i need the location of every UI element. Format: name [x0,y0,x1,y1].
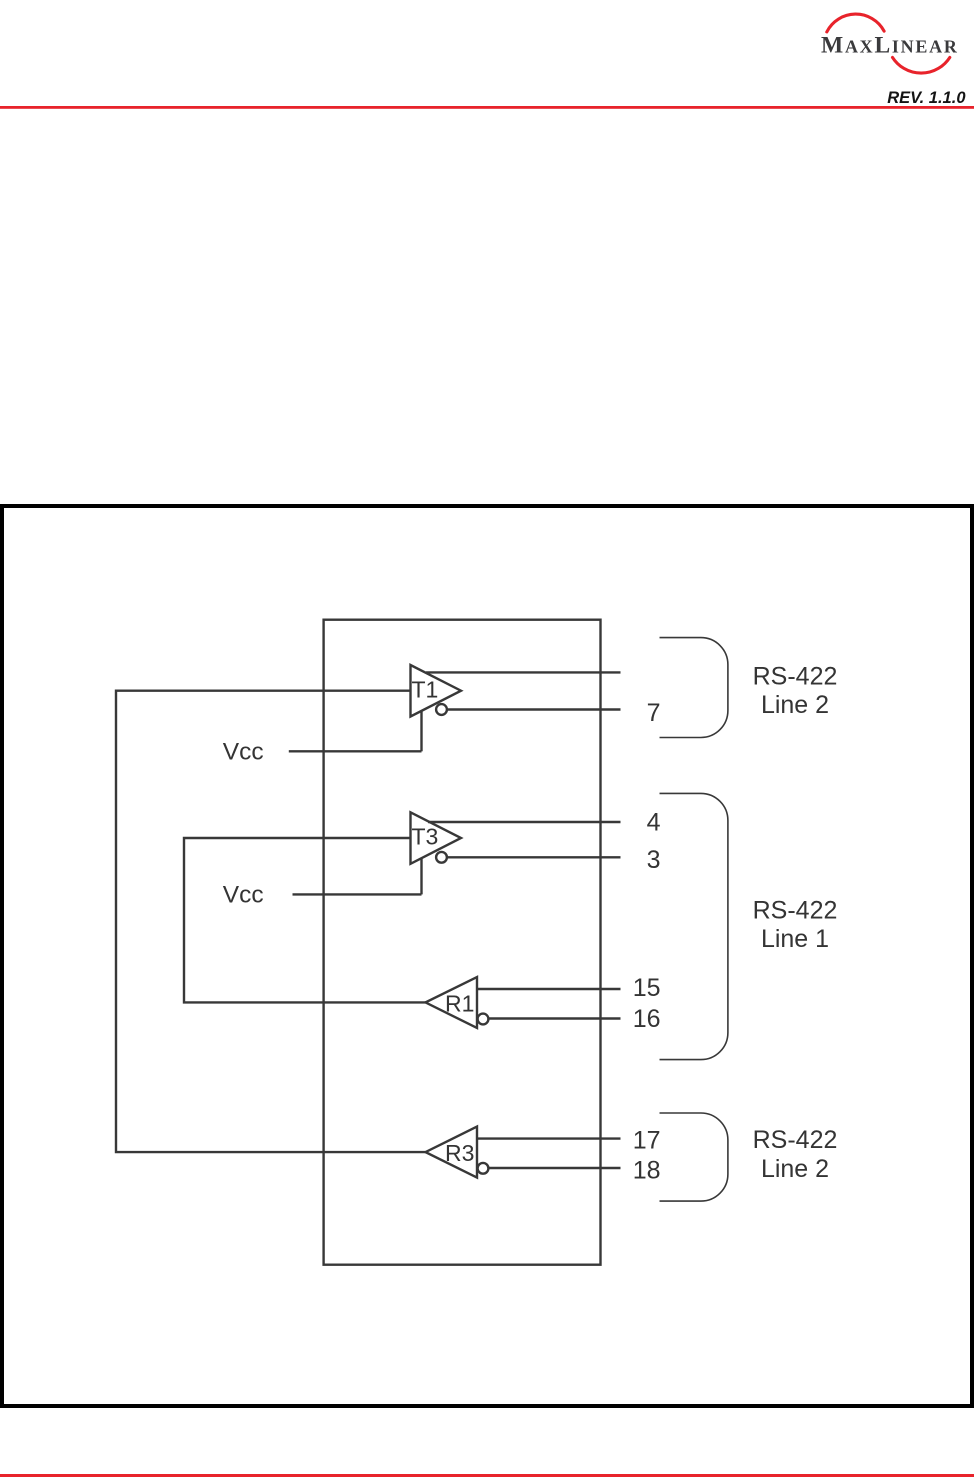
svg-text:Vcc: Vcc [223,738,264,765]
svg-text:Line 2: Line 2 [761,691,829,719]
svg-text:3: 3 [647,846,661,874]
svg-text:15: 15 [633,974,661,1002]
svg-text:Line 2: Line 2 [761,1155,829,1183]
svg-text:REV. 1.1.0: REV. 1.1.0 [887,89,966,107]
svg-text:RS-422: RS-422 [753,663,838,691]
svg-text:7: 7 [647,699,661,727]
svg-text:T3: T3 [412,824,439,850]
svg-text:RS-422: RS-422 [753,1126,838,1154]
svg-text:MAXLINEAR: MAXLINEAR [821,33,959,59]
svg-text:Vcc: Vcc [223,882,264,909]
svg-text:R1: R1 [445,991,474,1017]
svg-text:18: 18 [633,1156,661,1184]
svg-text:T1: T1 [412,676,439,702]
svg-text:17: 17 [633,1127,661,1155]
svg-text:R3: R3 [445,1140,474,1166]
svg-text:RS-422: RS-422 [753,896,838,924]
svg-text:16: 16 [633,1005,661,1033]
svg-text:4: 4 [647,809,661,837]
svg-text:Line 1: Line 1 [761,925,829,953]
